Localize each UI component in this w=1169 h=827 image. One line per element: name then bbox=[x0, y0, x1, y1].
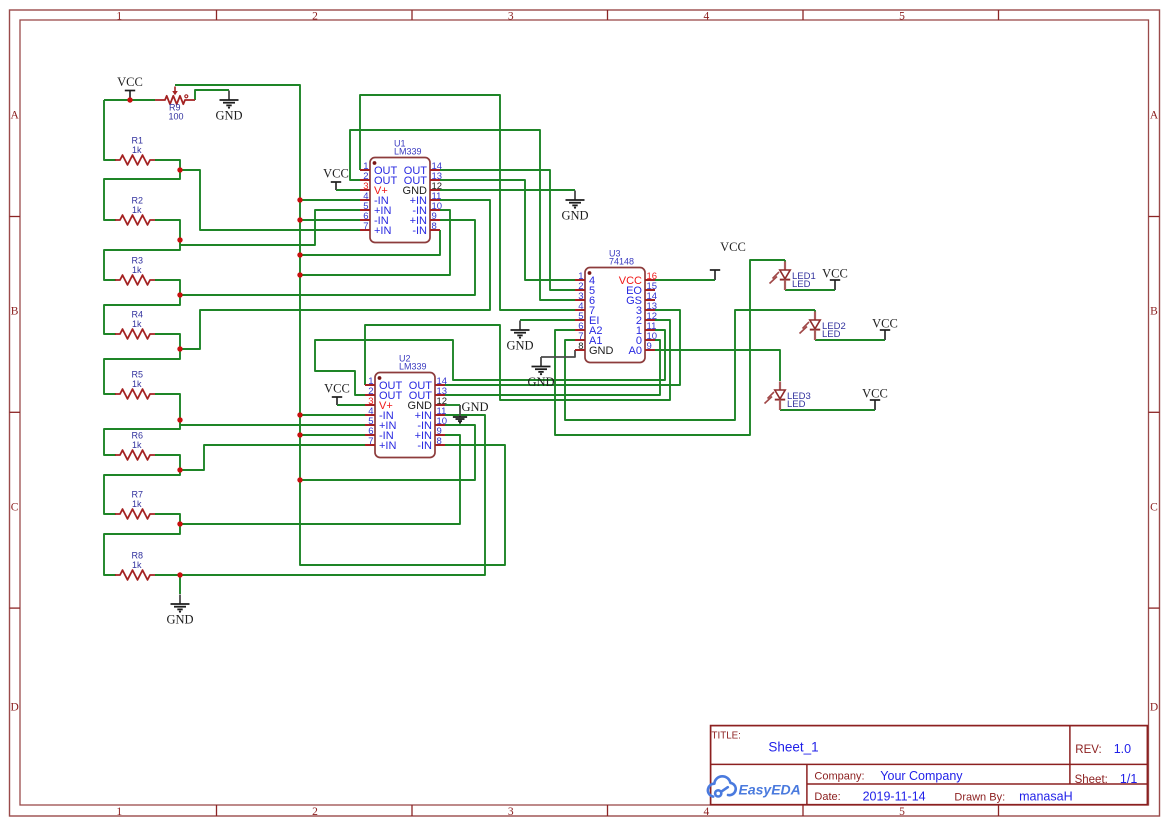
junction R6-R7 tap bbox=[177, 467, 182, 472]
svg-text:1.0: 1.0 bbox=[1114, 742, 1131, 756]
ground symbol at U3 EI bbox=[506, 321, 533, 353]
svg-text:1k: 1k bbox=[132, 265, 142, 275]
ground symbol at U1 pin12 bbox=[561, 191, 588, 223]
svg-text:GND: GND bbox=[589, 345, 614, 357]
svg-text:D: D bbox=[1150, 702, 1158, 714]
svg-text:2: 2 bbox=[312, 806, 318, 818]
U3 pin 10 (0) bbox=[636, 331, 657, 347]
VCC power flag at LED1 bbox=[822, 267, 848, 281]
wire U2 pin12 to ground bbox=[445, 404, 460, 406]
junction ref U2 pin4 bbox=[297, 412, 302, 417]
U2 pin 13 (OUT) bbox=[409, 386, 447, 402]
VCC symbol stem (LED2) bbox=[884, 331, 886, 341]
wire VCC to U1 pin3 bbox=[336, 189, 360, 191]
junction VCC rail bbox=[127, 97, 132, 102]
wire tap R4 to U1 pin11 bbox=[180, 200, 490, 349]
svg-text:+IN: +IN bbox=[379, 440, 396, 452]
U1 pin 1 (OUT) bbox=[360, 161, 398, 177]
U3 pin 1 (4) bbox=[575, 271, 595, 287]
U1 pin 14 (OUT) bbox=[404, 161, 442, 177]
wire R5 out to R6 in bbox=[104, 394, 180, 455]
wire into LED1 bbox=[784, 260, 786, 262]
svg-text:GND: GND bbox=[166, 613, 193, 627]
svg-text:5: 5 bbox=[899, 806, 905, 818]
U3 pin 16 (VCC) bbox=[619, 271, 657, 287]
VCC power flag at LED3 bbox=[862, 387, 888, 401]
junction R1-R2 tap bbox=[177, 167, 182, 172]
svg-text:+IN: +IN bbox=[374, 225, 391, 237]
U3 pin 3 (6) bbox=[575, 291, 595, 307]
U3 pin 14 (GS) bbox=[626, 291, 657, 307]
U1 pin 8 (-IN) bbox=[412, 221, 440, 237]
junction ref U1 pin6 bbox=[297, 217, 302, 222]
wire U1 pin12 to ground bbox=[440, 189, 575, 191]
EasyEDA logo bbox=[708, 776, 801, 797]
U3 pin 6 (A2) bbox=[575, 321, 602, 337]
wire U1 pin14 to U3 pin2 bbox=[440, 170, 575, 290]
svg-text:Sheet:: Sheet: bbox=[1075, 774, 1108, 786]
resistor R4 (1k) bbox=[115, 310, 155, 339]
resistor R6 (1k) bbox=[115, 431, 155, 460]
svg-text:LED: LED bbox=[792, 279, 811, 290]
wire into LED2 bbox=[814, 310, 816, 312]
title block bbox=[711, 726, 1148, 805]
U2 pin 6 (-IN) bbox=[365, 426, 394, 442]
wire VCC-R9 bbox=[104, 99, 155, 101]
wire R4 out to R5 in bbox=[104, 334, 180, 394]
wire U1 pin13 to U3 pin1 bbox=[440, 180, 575, 280]
ground symbol at U2 pin12 bbox=[453, 400, 489, 424]
svg-text:2: 2 bbox=[312, 10, 318, 22]
U1 pin 7 (+IN) bbox=[360, 221, 391, 237]
svg-text:Date:: Date: bbox=[814, 791, 840, 803]
wire R3 out to R4 in bbox=[104, 280, 180, 334]
svg-text:7: 7 bbox=[368, 436, 373, 447]
svg-text:REV:: REV: bbox=[1075, 744, 1101, 756]
VCC symbol stem (LED3) bbox=[874, 401, 876, 411]
VCC symbol stem (U2 pin3) bbox=[336, 398, 338, 406]
U2 pin 14 (OUT) bbox=[409, 376, 447, 392]
svg-text:B: B bbox=[1150, 306, 1158, 318]
svg-text:74148: 74148 bbox=[609, 257, 634, 267]
wire R9 right to ground bbox=[195, 90, 229, 100]
LED LED2 bbox=[800, 312, 846, 341]
wire U3 pin8 gnd bbox=[541, 350, 575, 357]
wire U3 pin6 A2 to LED1 bbox=[555, 260, 785, 435]
title block texts bbox=[712, 731, 1138, 804]
junction ref U2 pin6 bbox=[297, 432, 302, 437]
svg-text:VCC: VCC bbox=[720, 240, 746, 254]
svg-text:1k: 1k bbox=[132, 440, 142, 450]
wire tap R2 to U1 pin5 bbox=[180, 210, 360, 245]
svg-text:LM339: LM339 bbox=[394, 147, 422, 157]
svg-text:GND: GND bbox=[462, 400, 489, 414]
wire R8 to ground bbox=[179, 575, 181, 594]
junction ref U2 pin10 bbox=[297, 477, 302, 482]
resistor R5 (1k) bbox=[115, 370, 155, 399]
svg-text:manasaH: manasaH bbox=[1019, 790, 1073, 804]
wire LED1 to VCC bbox=[785, 289, 835, 291]
wire VCC to U2 pin3 bbox=[337, 404, 365, 406]
svg-text:VCC: VCC bbox=[117, 75, 143, 89]
svg-text:A: A bbox=[1150, 110, 1159, 122]
svg-text:8: 8 bbox=[432, 221, 437, 232]
wire U3 pin5 EI to ground bbox=[520, 319, 575, 321]
junction R4-R5 tap bbox=[177, 346, 182, 351]
U1 pin 4 (-IN) bbox=[360, 191, 389, 207]
U2 pin 10 (-IN) bbox=[417, 416, 447, 432]
wire U3 pin16 to VCC bbox=[655, 279, 715, 281]
U3 pin 13 (3) bbox=[636, 301, 657, 317]
wire U2 pin2 to U3 pin11 bbox=[315, 330, 665, 395]
wire U1 pin2 to U3 pin3 bbox=[350, 130, 575, 300]
U1 pin 10 (-IN) bbox=[412, 201, 442, 217]
svg-text:A0: A0 bbox=[629, 345, 642, 357]
svg-text:B: B bbox=[11, 306, 19, 318]
svg-text:C: C bbox=[1150, 502, 1158, 514]
svg-text:VCC: VCC bbox=[872, 317, 898, 331]
VCC symbol stem (top-left) bbox=[129, 91, 131, 100]
ground symbol below R8 bbox=[166, 595, 193, 627]
U2 pin 5 (+IN) bbox=[365, 416, 396, 432]
op-amp/IC U3 (74148) bbox=[575, 249, 657, 363]
svg-text:1k: 1k bbox=[132, 145, 142, 155]
svg-text:EasyEDA: EasyEDA bbox=[739, 782, 801, 798]
wire tap R3 to U1 pin9 bbox=[180, 220, 475, 295]
wire U3 pin7 A1 to LED2 bbox=[565, 310, 815, 420]
LED LED3 bbox=[765, 382, 811, 411]
U3 pin 8 (GND) bbox=[575, 341, 614, 357]
svg-text:GND: GND bbox=[561, 209, 588, 223]
svg-text:GND: GND bbox=[506, 339, 533, 353]
svg-text:1k: 1k bbox=[132, 205, 142, 215]
junction R5-R6 tap bbox=[177, 417, 182, 422]
VCC power flag at LED2 bbox=[872, 317, 898, 331]
junction R7-R8 tap bbox=[177, 521, 182, 526]
svg-text:1k: 1k bbox=[132, 379, 142, 389]
resistor R3 (1k) bbox=[115, 256, 155, 285]
wire R8 out bbox=[155, 574, 180, 576]
U1 pin 12 (GND) bbox=[403, 181, 443, 197]
junction ref U1 pin10 bbox=[297, 272, 302, 277]
wire U1 pin10 to reference bbox=[300, 210, 450, 275]
wire U1 pin8 to reference bbox=[300, 230, 440, 255]
VCC symbol stem (U1 pin3) bbox=[335, 183, 337, 191]
svg-text:3: 3 bbox=[508, 806, 514, 818]
svg-text:9: 9 bbox=[647, 341, 652, 352]
U2 pin 8 (-IN) bbox=[417, 436, 445, 452]
svg-text:3: 3 bbox=[508, 10, 514, 22]
svg-text:C: C bbox=[11, 502, 19, 514]
VCC symbol stem (LED1) bbox=[834, 281, 836, 291]
VCC power flag at U1 pin3 bbox=[323, 167, 349, 183]
U2 pin 12 (GND) bbox=[408, 396, 448, 412]
wire tap R7 to U2 pin9 bbox=[180, 435, 460, 524]
U3 pin 11 (1) bbox=[636, 321, 657, 337]
junction ref U1 pin8 bbox=[297, 252, 302, 257]
svg-text:GND: GND bbox=[527, 375, 554, 389]
wire U1 pin4 to reference bbox=[300, 199, 360, 201]
U2 pin 11 (+IN) bbox=[415, 406, 447, 422]
svg-text:1k: 1k bbox=[132, 560, 142, 570]
U3 pin 15 (EO) bbox=[626, 281, 657, 297]
svg-text:8: 8 bbox=[578, 341, 583, 352]
wire U2 pin1 to U3 pin12 bbox=[365, 320, 670, 400]
junction R3-R4 tap bbox=[177, 292, 182, 297]
wire LED3 to VCC bbox=[780, 409, 875, 411]
VCC power flag at U3 pin16 bbox=[710, 240, 746, 270]
U2 pin 7 (+IN) bbox=[365, 436, 396, 452]
U3 pin 12 (2) bbox=[636, 311, 657, 327]
VCC symbol stem (U3 pin16) bbox=[714, 271, 716, 281]
svg-text:LM339: LM339 bbox=[399, 362, 427, 372]
wire tap R5 to U2 pin5 bbox=[180, 424, 365, 426]
resistor R2 (1k) bbox=[115, 196, 155, 225]
svg-text:Company:: Company: bbox=[814, 770, 864, 782]
wire R9 wiper reference rail to U2 pin8 bbox=[175, 85, 505, 565]
svg-text:100: 100 bbox=[169, 112, 184, 122]
U3 pin 7 (A1) bbox=[575, 331, 602, 347]
U3 pin 5 (EI) bbox=[575, 311, 599, 327]
U1 pin 6 (-IN) bbox=[360, 211, 389, 227]
VCC power flag top-left bbox=[117, 75, 143, 91]
wire R2 out to R3 in bbox=[104, 220, 180, 280]
svg-text:7: 7 bbox=[363, 221, 368, 232]
U2 pin 9 (+IN) bbox=[415, 426, 445, 442]
wire U2 pin14 to U3 pin13 bbox=[445, 310, 680, 385]
svg-text:Sheet_1: Sheet_1 bbox=[768, 740, 818, 755]
svg-text:A: A bbox=[10, 110, 19, 122]
VCC power flag at U2 pin3 bbox=[324, 382, 350, 398]
resistor R1 (1k) bbox=[115, 136, 155, 165]
wire U2 pin4 to reference bbox=[300, 414, 365, 416]
svg-text:4: 4 bbox=[704, 806, 710, 818]
svg-text:VCC: VCC bbox=[324, 382, 350, 396]
svg-text:GND: GND bbox=[215, 109, 242, 123]
wire U1 pin6 to reference bbox=[300, 219, 360, 221]
wire LED2 to VCC bbox=[815, 339, 885, 341]
U1 pin 11 (+IN) bbox=[410, 191, 442, 207]
svg-text:TITLE:: TITLE: bbox=[712, 731, 741, 742]
U1 pin 3 (V+) bbox=[360, 181, 388, 197]
svg-text:-IN: -IN bbox=[417, 440, 432, 452]
svg-text:1: 1 bbox=[116, 806, 122, 818]
ground symbol near R9 bbox=[215, 91, 242, 123]
resistor R8 (1k) bbox=[115, 551, 155, 580]
svg-text:LED: LED bbox=[822, 329, 841, 340]
wire tap R6 to U2 pin7 bbox=[180, 445, 365, 470]
U1 pin 13 (OUT) bbox=[404, 171, 442, 187]
op-amp/IC U1 (LM339) bbox=[360, 139, 442, 243]
wire U2 pin6 to reference bbox=[300, 434, 365, 436]
svg-text:1k: 1k bbox=[132, 319, 142, 329]
U1 pin 5 (+IN) bbox=[360, 201, 391, 217]
svg-text:Drawn By:: Drawn By: bbox=[954, 791, 1005, 803]
ground symbol at U3 pin8 bbox=[527, 357, 554, 389]
svg-text:4: 4 bbox=[704, 10, 710, 22]
wire U2 pin13 to U3 pin10 bbox=[445, 340, 660, 395]
op-amp/IC U2 (LM339) bbox=[365, 354, 447, 458]
svg-text:D: D bbox=[10, 702, 18, 714]
wire R7 out to R8 in bbox=[104, 514, 180, 575]
U3 pin 4 (7) bbox=[575, 301, 595, 317]
svg-text:8: 8 bbox=[437, 436, 442, 447]
wire U1 pin1 to U3 pin4 bbox=[360, 95, 575, 310]
wire U3 pin9 A0 to LED3 bbox=[655, 350, 780, 381]
svg-text:Your Company: Your Company bbox=[880, 769, 963, 783]
wire rail VCC-R1 bbox=[104, 100, 116, 160]
svg-text:-IN: -IN bbox=[412, 225, 427, 237]
svg-text:VCC: VCC bbox=[862, 387, 888, 401]
U3 pin 2 (5) bbox=[575, 281, 595, 297]
svg-text:VCC: VCC bbox=[323, 167, 349, 181]
svg-text:LED: LED bbox=[787, 399, 806, 410]
wire R6 out to R7 in bbox=[104, 455, 180, 514]
U2 pin 2 (OUT) bbox=[365, 386, 403, 402]
wire U2 pin10 to reference bbox=[300, 425, 475, 480]
LED LED1 bbox=[770, 262, 816, 291]
svg-text:2019-11-14: 2019-11-14 bbox=[863, 790, 926, 804]
wire R1 out to R2 in bbox=[104, 160, 180, 220]
U1 pin 2 (OUT) bbox=[360, 171, 398, 187]
wire tap R8 to U2 pin11 bbox=[180, 415, 485, 575]
U2 pin 4 (-IN) bbox=[365, 406, 394, 422]
junction R8-GND tap bbox=[177, 572, 182, 577]
U1 pin 9 (+IN) bbox=[410, 211, 440, 227]
wire tap R1 to U1 pin7 bbox=[180, 170, 360, 230]
svg-text:1k: 1k bbox=[132, 499, 142, 509]
U2 pin 3 (V+) bbox=[365, 396, 393, 412]
U3 pin 9 (A0) bbox=[629, 341, 655, 357]
junction R2-R3 tap bbox=[177, 237, 182, 242]
svg-text:5: 5 bbox=[899, 10, 905, 22]
U2 pin 1 (OUT) bbox=[365, 376, 403, 392]
svg-text:1/1: 1/1 bbox=[1120, 772, 1137, 786]
resistor R7 (1k) bbox=[115, 490, 155, 519]
svg-text:1: 1 bbox=[116, 10, 122, 22]
potentiometer R9 (100) bbox=[155, 87, 195, 122]
svg-text:VCC: VCC bbox=[822, 267, 848, 281]
junction ref U1 pin4 bbox=[297, 197, 302, 202]
